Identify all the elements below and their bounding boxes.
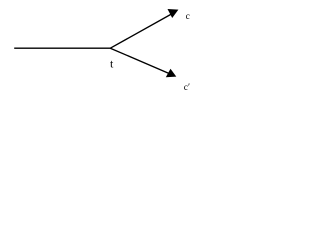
arrowhead of branch c <box>168 9 179 18</box>
wire: upper branch toward c <box>110 14 171 48</box>
svg-text:c: c <box>186 12 190 22</box>
svg-text:c′: c′ <box>184 83 190 93</box>
svg-text:t: t <box>110 57 114 71</box>
arrowhead of branch c' <box>166 69 177 77</box>
wire: lower branch toward c' <box>110 48 168 73</box>
wire: incoming horizontal segment <box>14 47 110 49</box>
